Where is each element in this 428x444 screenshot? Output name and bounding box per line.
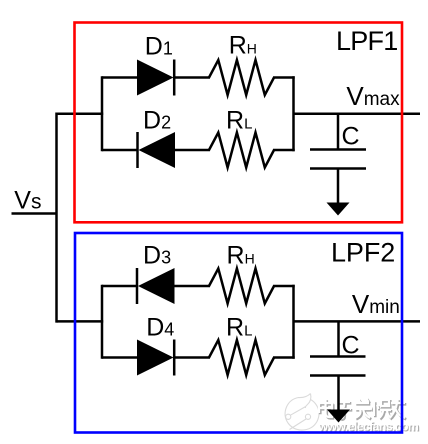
diode D1 xyxy=(137,60,174,96)
svg-text:D4: D4 xyxy=(146,313,174,341)
resistor RL (LPF2) xyxy=(209,340,274,375)
svg-text:LPF1: LPF1 xyxy=(336,26,398,56)
wire: RL to right junction (LPF2) xyxy=(273,356,295,359)
wire: RL to right junction xyxy=(273,149,295,152)
wire: LPF2 top branch left segment xyxy=(102,285,137,288)
diode D4 xyxy=(137,340,174,376)
resistor RH (LPF2) xyxy=(209,269,274,304)
LPF2 block frame (blue) xyxy=(75,233,402,433)
svg-text:RH: RH xyxy=(227,241,255,269)
wire: main input bus vertical xyxy=(55,113,58,323)
svg-text:LPF2: LPF2 xyxy=(331,237,395,267)
capacitor C (LPF2) stem xyxy=(337,321,340,356)
watermark logo circle (elecfans) xyxy=(285,394,319,431)
wire: D1 to RH xyxy=(174,76,210,79)
ground arrow (LPF2) xyxy=(327,410,350,423)
svg-text:Vmin: Vmin xyxy=(352,289,400,319)
wire: LPF1 right junction vertical xyxy=(292,76,295,151)
svg-text:D2: D2 xyxy=(143,107,171,135)
wire: tee into LPF2 xyxy=(57,320,104,323)
wire: Vs input stub xyxy=(12,212,58,215)
wire: D4 to RL (LPF2) xyxy=(174,356,210,359)
diode D2 xyxy=(138,132,176,168)
ground arrow (LPF1) xyxy=(327,203,350,216)
wire: D2 to RL xyxy=(174,149,210,152)
capacitor C (LPF2) plates xyxy=(310,357,366,376)
wire: Vmax output xyxy=(294,112,421,115)
ground stem (LPF2) xyxy=(337,376,340,411)
wire: Vmin output xyxy=(294,320,421,323)
wire: LPF1 left junction vertical xyxy=(101,76,104,151)
svg-text:RL: RL xyxy=(226,313,252,341)
wire: LPF2 bottom branch left segment xyxy=(102,356,138,359)
diode D3 xyxy=(137,268,175,304)
wire: RH to right junction (LPF2) xyxy=(273,285,295,288)
wire: LPF1 top branch left segment xyxy=(102,76,138,79)
svg-text:Vmax: Vmax xyxy=(346,81,400,111)
watermark chinese text 电子发烧友 (approximated strokes, gray shadow + white core) xyxy=(319,398,406,420)
capacitor C (LPF1) plates xyxy=(310,150,366,169)
wire: RH to right junction xyxy=(273,76,295,79)
capacitor C (LPF1) stem xyxy=(337,114,340,150)
ground stem (LPF1) xyxy=(337,169,340,205)
LPF1 block frame (red) xyxy=(75,23,403,223)
svg-text:RH: RH xyxy=(229,32,257,60)
svg-text:C: C xyxy=(342,123,360,151)
wire: LPF1 bottom branch left segment xyxy=(102,149,138,152)
svg-text:Vs: Vs xyxy=(14,187,41,215)
resistor RL (LPF1) xyxy=(209,133,274,168)
svg-text:RL: RL xyxy=(226,107,252,135)
wire: D3 to RH xyxy=(174,285,211,288)
wire: tee into LPF1 xyxy=(57,112,104,115)
resistor RH (LPF1) xyxy=(209,60,274,95)
svg-text:C: C xyxy=(342,332,360,360)
wire: LPF2 left junction vertical xyxy=(101,285,104,359)
wire: LPF2 right junction vertical xyxy=(292,285,295,359)
svg-text:D3: D3 xyxy=(143,241,171,269)
svg-text:D1: D1 xyxy=(145,32,173,60)
